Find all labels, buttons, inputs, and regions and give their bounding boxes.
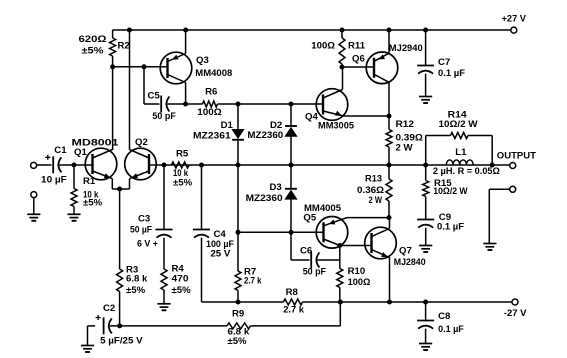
resistor R2 620 ohm — [79, 30, 130, 67]
wire Q5 collector to Q7 base — [340, 245, 372, 247]
resistor R3 6.8k — [117, 189, 148, 326]
capacitor C8 0.1uF — [417, 302, 464, 343]
svg-text:C2: C2 — [103, 303, 115, 314]
node D2 D3 mid junction — [289, 163, 294, 168]
ground R1 — [67, 214, 80, 221]
resistor R6 100 ohm — [186, 87, 238, 118]
terminal output return — [510, 186, 516, 192]
wire Q4 collector riser — [342, 67, 344, 90]
svg-text:C6: C6 — [300, 245, 312, 256]
transistor Q6 MJ2940 — [352, 43, 423, 84]
svg-text:25 V: 25 V — [210, 248, 231, 259]
resistor R7 2.7k — [235, 165, 262, 302]
resistor R4 470 — [161, 238, 191, 304]
transistor Q2 MD8001 — [125, 137, 164, 180]
svg-text:L1: L1 — [455, 147, 467, 158]
resistor R10 100 ohm — [337, 246, 371, 303]
svg-text:±5%: ±5% — [83, 198, 103, 209]
terminal input ground — [31, 192, 37, 198]
svg-text:C7: C7 — [438, 57, 450, 68]
svg-text:Q4: Q4 — [305, 111, 318, 122]
svg-text:620Ω: 620Ω — [79, 34, 107, 45]
svg-text:MJ2840: MJ2840 — [394, 257, 426, 268]
capacitor C9 0.1uF — [417, 212, 464, 245]
svg-text:Q3: Q3 — [196, 55, 209, 66]
svg-text:±5%: ±5% — [172, 285, 192, 296]
wire Q3 collector down — [185, 83, 187, 105]
svg-text:±5%: ±5% — [126, 285, 146, 296]
wire Q5 emitter to R13 bottom — [347, 217, 389, 219]
node R10 bottom junction — [338, 300, 343, 305]
ground C7 — [419, 97, 432, 104]
svg-text:2.7 k: 2.7 k — [283, 305, 304, 316]
svg-text:2 W: 2 W — [369, 195, 383, 206]
node R7 top junction — [236, 230, 241, 235]
svg-text:R5: R5 — [176, 149, 189, 160]
svg-text:R8: R8 — [286, 287, 299, 298]
svg-text:100Ω: 100Ω — [197, 107, 222, 118]
node R13 bottom junction — [387, 215, 392, 220]
svg-text:D3: D3 — [270, 182, 282, 193]
wire lower line C4 to Q7 emitter — [202, 301, 513, 303]
node junction top rail Q6 emitter — [387, 28, 392, 33]
wire bias line to Q5 base — [238, 231, 324, 233]
svg-text:R9: R9 — [232, 308, 244, 319]
svg-text:Q7: Q7 — [399, 245, 412, 256]
svg-text:10Ω/2 W: 10Ω/2 W — [439, 119, 479, 130]
svg-text:100Ω: 100Ω — [311, 40, 335, 51]
svg-text:C8: C8 — [438, 311, 451, 322]
svg-text:+27 V: +27 V — [502, 13, 527, 24]
svg-text:470: 470 — [172, 274, 189, 285]
wire mid line Q2 base to output network — [164, 164, 492, 166]
wire R6 to Q4 base — [238, 103, 323, 105]
wire Q4 emitter line to R12 — [344, 115, 390, 117]
resistor R9 6.8k — [227, 308, 251, 347]
svg-text:0.1 µF: 0.1 µF — [437, 221, 464, 232]
wire Q7 collector riser — [389, 218, 391, 229]
ground input — [27, 214, 40, 221]
node C4 junction — [199, 163, 204, 168]
transistor Q4 MM3005 — [305, 89, 355, 132]
transistor Q3 MM4008 — [160, 52, 233, 84]
svg-text:MJ2940: MJ2940 — [389, 43, 423, 54]
resistor R14 10 ohm 2W — [426, 109, 493, 165]
svg-text:R11: R11 — [348, 40, 366, 51]
svg-text:R13: R13 — [365, 173, 382, 184]
svg-text:MM4008: MM4008 — [195, 68, 233, 79]
svg-text:100Ω: 100Ω — [348, 277, 371, 288]
node junction top rail C7 — [423, 28, 428, 33]
resistor R11 100 ohm — [311, 30, 365, 67]
svg-text:Q6: Q6 — [352, 54, 365, 65]
svg-text:R12: R12 — [396, 119, 415, 130]
ground C9 — [419, 246, 432, 253]
svg-text:5 µF/25 V: 5 µF/25 V — [100, 335, 143, 346]
diode D1 MZ2361 — [193, 104, 244, 165]
svg-text:10 µF: 10 µF — [41, 174, 67, 185]
node common emitter junction — [117, 187, 122, 192]
svg-text:50 pF: 50 pF — [152, 111, 176, 122]
node Q3 collector C5 R6 junction — [183, 102, 188, 107]
svg-text:Q2: Q2 — [135, 137, 148, 148]
svg-text:MZ2360: MZ2360 — [246, 193, 283, 204]
svg-text:10Ω/2 W: 10Ω/2 W — [433, 186, 468, 197]
wire Q1 Q2 common emitter bar — [112, 179, 129, 189]
node R15 junction — [423, 163, 428, 168]
resistor R13 0.36 ohm 2W — [357, 165, 392, 218]
svg-text:50 pF: 50 pF — [303, 267, 326, 278]
transistor Q5 MM4005 — [303, 203, 347, 248]
svg-text:6.8 k: 6.8 k — [126, 274, 148, 285]
resistor R1 10k — [71, 165, 103, 214]
capacitor C4 100uF — [193, 165, 234, 302]
svg-text:MM3005: MM3005 — [318, 120, 355, 131]
ground output return — [483, 244, 496, 251]
resistor R15 10 ohm 2W — [423, 165, 469, 220]
svg-text:6 V +: 6 V + — [137, 238, 158, 249]
resistor R12 0.39 ohm 2W — [386, 116, 423, 165]
svg-text:2.7 k: 2.7 k — [244, 276, 262, 287]
svg-text:R10: R10 — [348, 266, 366, 277]
svg-text:R2: R2 — [118, 41, 130, 52]
wire Q3 emitter to top rail — [185, 30, 187, 54]
resistor R8 2.7k — [283, 287, 304, 315]
terminal +27 V — [502, 13, 527, 33]
node C5 branch junction — [142, 64, 147, 69]
svg-text:-27 V: -27 V — [504, 308, 527, 319]
node junction top rail Q2 collector — [127, 28, 132, 33]
svg-text:0.1 µF: 0.1 µF — [438, 324, 464, 335]
svg-text:R6: R6 — [205, 87, 217, 98]
node R2 bottom junction — [110, 64, 115, 69]
svg-text:50 µF: 50 µF — [130, 224, 152, 235]
terminal OUTPUT — [492, 151, 536, 169]
svg-text:D1: D1 — [221, 120, 234, 131]
svg-text:±5%: ±5% — [82, 46, 105, 57]
node D3 bottom junction — [289, 230, 294, 235]
wire R9 line — [120, 302, 341, 326]
node D1 top junction — [236, 102, 241, 107]
svg-text:R1: R1 — [83, 176, 96, 187]
svg-text:±5%: ±5% — [228, 336, 247, 347]
terminal -27 V — [504, 299, 527, 319]
wire output return to ground — [489, 189, 509, 243]
node Q1 base junction — [72, 163, 77, 168]
svg-text:OUTPUT: OUTPUT — [497, 151, 536, 162]
node R12 top junction — [387, 114, 392, 119]
capacitor C7 0.1uF — [417, 30, 465, 96]
node output junction R12 R13 — [387, 163, 392, 168]
wire Q7 emitter down — [389, 258, 391, 303]
wire R11 bottom to Q6 base — [342, 66, 374, 68]
resistor R5 10k — [172, 149, 193, 189]
capacitor C6 50pF — [291, 232, 340, 277]
svg-text:Q1: Q1 — [74, 147, 87, 158]
node Q7 emitter bottom junction — [387, 300, 392, 305]
node D2 top junction — [289, 102, 294, 107]
svg-text:Q5: Q5 — [303, 213, 316, 224]
node junction top rail Q3 emitter — [183, 28, 188, 33]
wire Q2 collector to top rail — [129, 30, 131, 150]
transistor Q1 MD8001 — [72, 138, 120, 180]
node R7 bottom junction — [236, 300, 241, 305]
svg-text:C5: C5 — [148, 90, 161, 101]
node R11 bottom junction — [340, 65, 345, 70]
wire +27V top rail — [113, 29, 511, 31]
diode D3 MZ2360 — [246, 165, 297, 232]
wire input ground stub — [33, 198, 35, 214]
node Q5 collector junction — [337, 243, 342, 248]
wire R2 bottom to Q3 base — [113, 66, 168, 68]
svg-text:C3: C3 — [138, 213, 150, 224]
node junction top rail R11 — [340, 28, 345, 33]
wire input to C1 — [37, 164, 52, 166]
wire Q1 collector riser — [112, 67, 114, 150]
ground R4 — [157, 304, 170, 311]
node C8 junction — [423, 300, 428, 305]
node C3 junction — [162, 163, 167, 168]
svg-text:MZ2361: MZ2361 — [193, 131, 231, 142]
diode D2 MZ2360 — [247, 104, 297, 165]
ground C2 — [81, 346, 94, 353]
capacitor C1 10uF — [41, 145, 74, 185]
terminal input — [31, 162, 37, 168]
wire Q6 collector down — [388, 82, 390, 116]
svg-text:2 µH. R = 0.05Ω: 2 µH. R = 0.05Ω — [433, 166, 500, 177]
svg-text:MZ2360: MZ2360 — [247, 130, 283, 141]
wire Q6 emitter to top rail — [388, 30, 390, 53]
inductor L1 2uH — [433, 147, 500, 177]
svg-text:2 W: 2 W — [396, 142, 414, 153]
transistor Q7 MJ2840 — [365, 227, 426, 268]
svg-text:±5%: ±5% — [173, 177, 193, 188]
svg-text:C1: C1 — [54, 145, 67, 156]
ground C8 — [419, 344, 432, 351]
capacitor C5 50pF — [144, 67, 186, 122]
node D1 mid junction — [236, 163, 241, 168]
node output terminal junction — [490, 163, 495, 168]
capacitor C3 50uF — [130, 165, 173, 249]
node C2 R3 R9 junction — [117, 323, 122, 328]
capacitor C2 5uF — [88, 303, 144, 346]
svg-text:0.1 µF: 0.1 µF — [438, 68, 465, 79]
